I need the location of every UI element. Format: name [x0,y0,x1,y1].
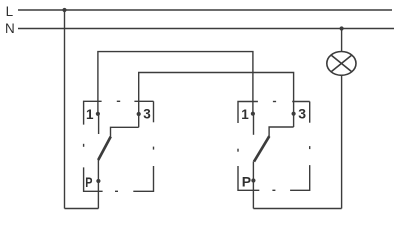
svg-text:1: 1 [86,107,94,122]
svg-text:P: P [85,174,92,190]
switch S1 terminal 3 label [143,106,151,121]
switch S2 terminal 3 label [298,106,306,122]
lamp E1 cross stroke 2 [331,55,352,72]
switch S1 terminal 1 label [86,107,94,122]
switch S1 enclosure (dash-dot box) [84,101,154,191]
wire traveller 2: S1 terminal 3 to S2 terminal 3 [139,73,294,114]
switch S2 terminal 1 label [241,107,249,122]
switch S1 terminal 3 node [137,112,141,116]
svg-text:3: 3 [143,106,151,121]
switch S2 contact 1 stub [253,115,255,135]
switch S2 enclosure (dash-dot box) [238,102,310,191]
node L label [6,4,14,19]
switch S1 contact 3 drop [138,114,140,127]
wire N rail to lamp [341,29,343,52]
switch S2 terminal P node [251,178,255,182]
wire bottom run S2 to lamp [253,208,341,210]
switch S2 terminal 1 node [251,112,255,116]
lamp E1 body [327,52,356,76]
wire N rail [18,28,394,30]
switch S2 terminal P label [242,174,251,190]
lamp E1 cross stroke 1 [331,55,352,72]
switch S1 contact 1 stub [98,115,100,134]
switch S1 lever [98,137,111,160]
switch S2 lever [254,136,269,161]
wire lamp return [341,75,343,208]
wire bottom run to S1 P terminal [65,208,99,210]
wire riser to S1 P terminal [97,160,99,209]
svg-text:N: N [5,21,15,36]
node junction on N rail [340,26,344,30]
switch S1 terminal P label [85,174,92,190]
switch S2 terminal 3 node [292,112,296,116]
switch S1 terminal 1 node [96,112,100,116]
wire S2 P riser [252,161,254,208]
switch S2 contact 3 step [269,127,294,137]
switch S2 contact 3 drop [293,114,295,127]
wire L feed down left side [64,10,66,209]
svg-text:1: 1 [241,107,249,122]
svg-text:L: L [6,4,14,19]
svg-text:3: 3 [298,106,306,122]
wire L rail [18,9,392,11]
node junction on L rail [62,8,66,12]
node N label [5,21,15,36]
switch S1 terminal P node [96,179,100,183]
svg-text:P: P [242,174,251,190]
switch S1 contact 3 step [111,127,139,137]
wire traveller 1: S1 terminal 1 to S2 terminal 1 [98,52,253,114]
